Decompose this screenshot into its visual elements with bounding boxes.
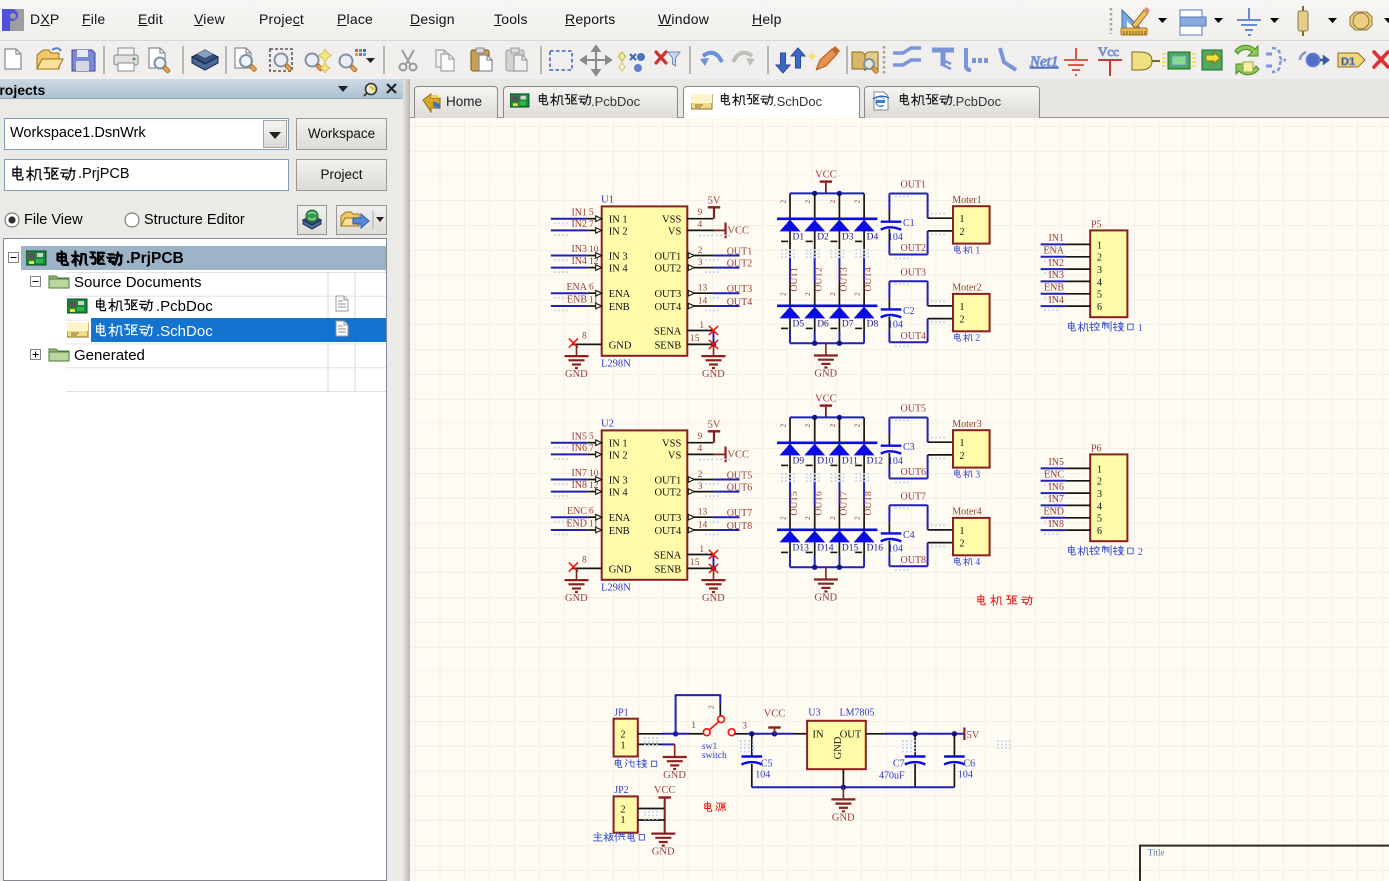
wire loop over switch [676, 695, 721, 734]
pin 1 stub [928, 217, 953, 219]
svg-text:ENB: ENB [567, 295, 587, 306]
svg-text:END: END [566, 519, 587, 530]
connector JP1 [614, 719, 638, 757]
svg-text:U3: U3 [808, 708, 820, 719]
svg-text:2: 2 [1097, 253, 1102, 264]
pin 5 (IN 1) [588, 218, 602, 220]
svg-text:7: 7 [589, 220, 594, 230]
pin 4 [1066, 504, 1090, 506]
wire column OUT3 [838, 193, 840, 218]
pin 6 [1066, 305, 1090, 307]
svg-text:D5: D5 [793, 319, 805, 329]
svg-text:2: 2 [621, 730, 626, 741]
junction [912, 731, 917, 736]
svg-text:3: 3 [1097, 265, 1102, 276]
svg-text:5: 5 [1097, 290, 1102, 301]
svg-text:D1: D1 [1341, 56, 1355, 68]
svg-text:3: 3 [975, 470, 980, 481]
svg-text:P6: P6 [1091, 443, 1102, 454]
diode D10 [804, 444, 825, 456]
svg-text:OUT1: OUT1 [654, 475, 681, 486]
pin IN [794, 733, 808, 735]
svg-text:ENC: ENC [1044, 470, 1064, 481]
ground [651, 834, 675, 846]
svg-text:2: 2 [779, 424, 788, 428]
pin 1 (SENA) [687, 554, 713, 556]
svg-text:GND: GND [832, 812, 855, 823]
wire cathode rail top [777, 441, 877, 444]
switch SW1 [703, 716, 735, 736]
svg-text:END: END [1043, 507, 1064, 518]
diode D6 [804, 307, 825, 319]
svg-text:OUT1: OUT1 [790, 267, 800, 292]
wire OUT1 [889, 193, 927, 195]
pin 12 (IN 4) [588, 267, 602, 269]
svg-text:2: 2 [853, 516, 862, 520]
pin 5 [1066, 293, 1090, 295]
svg-text:5: 5 [1097, 514, 1102, 525]
svg-text:VCC: VCC [654, 785, 676, 796]
svg-text:1: 1 [975, 246, 980, 257]
svg-text:IN 4: IN 4 [609, 264, 629, 275]
svg-text:IN: IN [813, 730, 824, 741]
title block [1140, 846, 1389, 881]
svg-text:IN4: IN4 [571, 256, 587, 267]
svg-text:2: 2 [1138, 547, 1143, 558]
connector Moter2 [953, 294, 990, 331]
svg-text:D12: D12 [867, 456, 884, 466]
svg-text:OUT4: OUT4 [654, 526, 682, 537]
wire OUT8 [888, 554, 890, 567]
junction [772, 731, 777, 736]
svg-text:12: 12 [589, 257, 599, 267]
junction [837, 565, 842, 570]
wire net OUT5 [714, 479, 740, 481]
svg-text:OUT7: OUT7 [727, 508, 753, 519]
wire net ENC [1041, 480, 1066, 482]
capacitor C1 [888, 211, 890, 222]
diode D14 [804, 531, 825, 543]
wire SENA-SENB [713, 555, 715, 569]
wire [662, 733, 690, 735]
label motor4 (CN) [955, 557, 981, 568]
pin 7 (IN 2) [588, 453, 602, 455]
pin 15 (SENB) [687, 567, 713, 569]
label battery-port (CN) [615, 759, 656, 768]
svg-text:OUT4: OUT4 [727, 297, 753, 308]
connector JP2 [614, 796, 638, 832]
pin 2 [687, 255, 714, 257]
svg-text:ENA: ENA [566, 282, 587, 293]
pin 4 [1066, 280, 1090, 282]
svg-text:GND: GND [609, 340, 632, 351]
svg-text:OUT6: OUT6 [901, 467, 927, 478]
junction [837, 341, 842, 346]
svg-text:3: 3 [742, 721, 747, 731]
svg-text:VS: VS [668, 450, 682, 461]
svg-text:Moter2: Moter2 [952, 283, 981, 294]
svg-text:LM7805: LM7805 [840, 708, 875, 719]
pin 2 [1066, 256, 1090, 258]
svg-text:OUT8: OUT8 [901, 555, 927, 566]
svg-text:2: 2 [698, 246, 703, 256]
svg-text:3: 3 [698, 482, 703, 492]
junction [812, 341, 817, 346]
svg-text:104: 104 [755, 769, 770, 780]
label motor-control-port1 (CN) [1069, 322, 1144, 334]
pin 2 [638, 733, 662, 735]
wire net OUT1 [714, 255, 740, 257]
svg-text:GND: GND [814, 368, 837, 379]
svg-text:ENC: ENC [567, 506, 587, 517]
svg-text:IN7: IN7 [1048, 494, 1064, 505]
svg-text:3: 3 [698, 258, 703, 268]
junction [812, 565, 817, 570]
wire OUT2 [888, 242, 890, 255]
svg-text:OUT3: OUT3 [654, 289, 681, 300]
svg-text:IN5: IN5 [1048, 457, 1064, 468]
svg-text:15: 15 [690, 558, 700, 568]
svg-text:11: 11 [589, 295, 598, 305]
svg-text:IN2: IN2 [1048, 258, 1064, 269]
pin 3 [1066, 492, 1090, 494]
svg-text:104: 104 [888, 544, 903, 555]
pin 1 stub [928, 441, 953, 443]
svg-text:2: 2 [960, 451, 965, 462]
svg-text:VS: VS [668, 226, 682, 237]
svg-text:D16: D16 [867, 543, 884, 553]
svg-text:Moter4: Moter4 [952, 507, 981, 518]
connector Moter1 [953, 206, 990, 243]
svg-text:OUT2: OUT2 [654, 264, 681, 275]
power port VCC [825, 182, 827, 194]
wire column OUT5 [789, 417, 791, 442]
svg-text:OUT4: OUT4 [654, 302, 682, 313]
connector P6 [1090, 454, 1127, 541]
wire ground rail [790, 566, 864, 568]
svg-text:OUT6: OUT6 [815, 491, 825, 516]
svg-text:C6: C6 [964, 758, 976, 769]
junction [841, 785, 846, 790]
wire column OUT6 [814, 417, 816, 442]
pin 9 (VSS) [687, 218, 713, 220]
pin 4 (VS) [687, 453, 714, 455]
svg-text:ENB: ENB [609, 526, 630, 537]
svg-text:D7: D7 [842, 319, 854, 329]
svg-text:IN8: IN8 [571, 480, 587, 491]
svg-text:IN4: IN4 [1048, 295, 1064, 306]
pin 11 (ENB) [588, 305, 602, 307]
svg-text:14: 14 [698, 520, 708, 530]
wire net IN2 [551, 229, 588, 231]
connector Moter3 [953, 430, 990, 467]
svg-text:GND: GND [609, 564, 632, 575]
junction [812, 191, 817, 196]
svg-text:2: 2 [707, 705, 716, 709]
pin 1 stub [928, 305, 953, 307]
diode D4 [854, 220, 875, 232]
svg-text:2: 2 [853, 424, 862, 428]
svg-text:6: 6 [1097, 302, 1102, 313]
svg-text:4: 4 [698, 444, 703, 454]
svg-text:switch: switch [702, 751, 727, 761]
svg-text:IN 3: IN 3 [609, 475, 628, 486]
junction [812, 415, 817, 420]
svg-text:IN 2: IN 2 [609, 450, 628, 461]
svg-text:2: 2 [828, 292, 837, 296]
diode D11 [829, 444, 850, 456]
svg-text:VCC: VCC [727, 226, 749, 237]
svg-text:2: 2 [853, 200, 862, 204]
pin 3 [687, 267, 714, 269]
svg-text:1: 1 [699, 321, 704, 331]
svg-text:D2: D2 [817, 232, 829, 242]
label motor2 (CN) [955, 333, 981, 344]
op-amp U1 [601, 195, 687, 370]
svg-text:IN2: IN2 [571, 219, 587, 230]
svg-text:SENA: SENA [654, 550, 682, 561]
capacitor C2 [888, 298, 890, 309]
wire [735, 733, 747, 735]
pin 3 [1066, 268, 1090, 270]
pin 2 stub [928, 542, 953, 544]
svg-text:2: 2 [1097, 477, 1102, 488]
capacitor C4 [888, 522, 890, 533]
pin 2 [1066, 480, 1090, 482]
wire [662, 743, 675, 745]
svg-text:1: 1 [1097, 464, 1102, 475]
svg-text:OUT3: OUT3 [901, 267, 927, 278]
pin 1 [1066, 243, 1090, 245]
wire net ENB [1041, 293, 1066, 295]
svg-text:VSS: VSS [662, 215, 681, 226]
wire net END [551, 529, 588, 531]
svg-text:OUT2: OUT2 [727, 258, 753, 269]
svg-text:OUT7: OUT7 [839, 491, 849, 516]
pin 13 [687, 516, 714, 518]
wire net ENC [551, 516, 588, 518]
svg-text:OUT4: OUT4 [864, 267, 874, 292]
diode D1 [780, 220, 801, 232]
svg-text:C7: C7 [893, 758, 905, 769]
svg-text:IN 1: IN 1 [609, 439, 628, 450]
svg-text:10: 10 [589, 245, 599, 255]
pin 14 [687, 305, 714, 307]
svg-text:IN1: IN1 [1048, 233, 1064, 244]
wire OUT3 [889, 280, 927, 282]
pin 8 (GND) [572, 567, 602, 569]
junction [837, 191, 842, 196]
svg-text:1: 1 [960, 214, 965, 225]
power port 5V [713, 431, 715, 442]
wire net IN7 [551, 479, 588, 481]
svg-text:C1: C1 [903, 218, 915, 229]
svg-text:SENB: SENB [654, 564, 681, 575]
svg-text:104: 104 [888, 232, 903, 243]
wire column OUT4 [863, 193, 865, 218]
svg-text:ENA: ENA [609, 289, 631, 300]
svg-text:2: 2 [803, 292, 812, 296]
svg-text:OUT2: OUT2 [815, 267, 825, 292]
wire OUT5 [889, 417, 927, 419]
svg-text:OUT5: OUT5 [901, 404, 927, 415]
svg-text:2: 2 [828, 516, 837, 520]
pin 1 [1066, 467, 1090, 469]
svg-text:2: 2 [803, 516, 812, 520]
ground [576, 568, 578, 580]
pin 2 [687, 479, 714, 481]
svg-text:VCC: VCC [815, 170, 837, 181]
wire VCC rail [790, 416, 864, 418]
wire net IN6 [1041, 492, 1066, 494]
wire net END [1041, 517, 1066, 519]
junction [673, 731, 678, 736]
svg-text:D1: D1 [793, 232, 805, 242]
svg-text:VCC: VCC [727, 450, 749, 461]
svg-text:GND: GND [565, 593, 588, 604]
svg-text:ENA: ENA [1043, 246, 1064, 257]
svg-text:2: 2 [828, 200, 837, 204]
svg-text:D9: D9 [793, 456, 805, 466]
junction [837, 415, 842, 420]
svg-text:104: 104 [888, 320, 903, 331]
junction [749, 731, 754, 736]
power port VCC [664, 798, 666, 834]
wire net IN8 [551, 491, 588, 493]
pin 2 [638, 808, 665, 810]
label motor-control-port2 (CN) [1069, 546, 1144, 558]
capacitor C5 [751, 734, 753, 757]
svg-text:5V: 5V [967, 730, 980, 741]
svg-text:JP1: JP1 [614, 708, 628, 719]
pin 9 (VSS) [687, 442, 713, 444]
svg-text:2: 2 [779, 200, 788, 204]
svg-text:8: 8 [582, 556, 587, 566]
power port VCC [714, 453, 725, 455]
wire cathode rail bottom [777, 528, 877, 531]
svg-text:IN 4: IN 4 [609, 488, 629, 499]
svg-text:OUT2: OUT2 [901, 243, 927, 254]
svg-text:11: 11 [589, 519, 598, 529]
wire column OUT8 [863, 417, 865, 442]
svg-text:Moter3: Moter3 [952, 419, 981, 430]
svg-text:GND: GND [814, 592, 837, 603]
svg-text:9: 9 [698, 432, 703, 442]
svg-text:L298N: L298N [601, 359, 631, 370]
svg-text:OUT8: OUT8 [864, 491, 874, 516]
svg-text:8: 8 [582, 332, 587, 342]
svg-text:ENA: ENA [609, 513, 631, 524]
svg-text:4: 4 [698, 220, 703, 230]
wire net OUT8 [714, 529, 740, 531]
svg-text:D4: D4 [867, 232, 879, 242]
svg-text:2: 2 [960, 539, 965, 550]
op-amp U2 [601, 419, 687, 594]
svg-text:GND: GND [833, 736, 844, 759]
pin 5 (IN 1) [588, 442, 602, 444]
svg-text:SENB: SENB [654, 340, 681, 351]
svg-text:IN1: IN1 [571, 207, 587, 218]
pin 6 (ENA) [588, 516, 602, 518]
svg-text:Moter1: Moter1 [952, 195, 981, 206]
pin 2 stub [928, 318, 953, 320]
label mainboard-power-port (CN) [593, 832, 644, 841]
connector Moter4 [953, 518, 990, 555]
pin 7 (IN 2) [588, 229, 602, 231]
wire net IN3 [551, 255, 588, 257]
svg-text:Title: Title [1148, 848, 1165, 858]
no-ERC marker SENB [709, 340, 718, 349]
no-ERC marker SENA [709, 550, 718, 559]
wire column OUT2 [814, 193, 816, 218]
svg-text:2: 2 [779, 292, 788, 296]
diode D2 [804, 220, 825, 232]
wire SENA-SENB [713, 331, 715, 345]
svg-text:D6: D6 [817, 319, 829, 329]
no-ERC marker SENB [709, 564, 718, 573]
connector P5 [1090, 230, 1127, 317]
svg-text:1: 1 [960, 302, 965, 313]
wire net IN1 [551, 218, 588, 220]
svg-text:2: 2 [779, 516, 788, 520]
ground [825, 567, 827, 579]
svg-text:P5: P5 [1091, 219, 1102, 230]
svg-text:SENA: SENA [654, 326, 682, 337]
svg-text:IN3: IN3 [571, 244, 587, 255]
svg-text:C5: C5 [761, 758, 773, 769]
wire cathode rail top [777, 218, 877, 221]
svg-text:12: 12 [589, 481, 599, 491]
svg-text:2: 2 [828, 424, 837, 428]
svg-text:5V: 5V [708, 196, 721, 207]
svg-text:ENB: ENB [609, 302, 630, 313]
pin 1 [638, 743, 662, 745]
diode D13 [780, 531, 801, 543]
pin 10 (IN 3) [588, 255, 602, 257]
svg-text:6: 6 [1097, 526, 1102, 537]
wire OUT6 [888, 466, 890, 479]
svg-text:IN5: IN5 [571, 431, 587, 442]
wire ground rail [790, 342, 864, 344]
svg-text:1: 1 [960, 438, 965, 449]
pin 11 (ENB) [588, 529, 602, 531]
svg-text:15: 15 [690, 334, 700, 344]
svg-text:7: 7 [589, 444, 594, 454]
diode D9 [780, 444, 801, 456]
wire net OUT4 [714, 305, 740, 307]
svg-text:D8: D8 [867, 319, 879, 329]
pin 13 [687, 292, 714, 294]
svg-text:1: 1 [1097, 240, 1102, 251]
svg-text:1: 1 [1138, 323, 1143, 334]
power port VCC [825, 406, 827, 418]
wire OUT7 [889, 504, 927, 506]
svg-text:OUT1: OUT1 [901, 180, 927, 191]
svg-text:OUT1: OUT1 [654, 251, 681, 262]
pin 2 stub [928, 230, 953, 232]
wire net IN2 [1041, 268, 1066, 270]
capacitor C6 [953, 734, 955, 757]
svg-text:Vcc: Vcc [1098, 44, 1119, 59]
svg-text:C2: C2 [903, 306, 915, 317]
diode D7 [829, 307, 850, 319]
capacitor C3 [888, 435, 890, 446]
pin OUT [866, 733, 885, 735]
svg-text:2: 2 [975, 333, 980, 344]
svg-text:2: 2 [960, 315, 965, 326]
svg-text:10: 10 [589, 469, 599, 479]
svg-text:OUT5: OUT5 [790, 491, 800, 516]
